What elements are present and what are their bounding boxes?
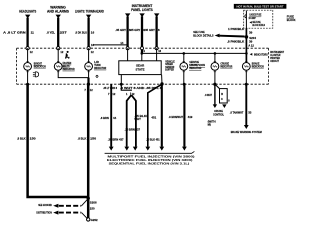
label 1 PNK/BLK 39 bbox=[228, 27, 253, 35]
wire arch branch split bbox=[127, 95, 136, 147]
indicator lamp SERVICE ENGINE SOON bbox=[180, 63, 188, 71]
svg-text:39: 39 bbox=[249, 39, 253, 43]
svg-text:INDICATOR: INDICATOR bbox=[220, 65, 233, 69]
wire below brake lamp bbox=[245, 70, 247, 84]
label BRIGHT INDICATOR bbox=[34, 61, 47, 68]
wire W3 .8 DK BLU bbox=[87, 18, 89, 49]
hop ring W4 at cluster edge bbox=[126, 47, 129, 50]
wire feed to service engine soon lamp bbox=[183, 53, 185, 62]
callout SEE GROUND DISTRIBUTION text bbox=[36, 203, 51, 214]
wire stub from VSS pin dot down and right to arch bbox=[121, 84, 132, 90]
junction dot W1 at bottom edge bbox=[26, 83, 29, 86]
label INSTRUMENT CLUSTER PRINTED CIRCUIT bbox=[270, 50, 284, 63]
svg-text:INDICATOR: INDICATOR bbox=[252, 65, 265, 69]
svg-text:DISTRIBUTION: DISTRIBUTION bbox=[36, 210, 51, 214]
wire feed to cruise lamp bbox=[214, 53, 216, 62]
wire W4 inside cluster to VSS box bbox=[127, 48, 129, 61]
svg-text:BLOCK: BLOCK bbox=[287, 18, 296, 22]
pin 12 labels under edge bbox=[30, 49, 162, 54]
svg-text:INDICATOR: INDICATOR bbox=[34, 65, 47, 69]
svg-text:44: 44 bbox=[113, 116, 117, 120]
svg-text:16: 16 bbox=[91, 31, 95, 35]
label wire W6 value bbox=[144, 28, 160, 32]
junction dot W3 at bottom edge bbox=[87, 83, 90, 86]
wire ground W1 below cluster (thick, L-bend) bbox=[28, 84, 89, 197]
pin ticks below indicator lamps bbox=[26, 71, 247, 73]
svg-text:S206: S206 bbox=[90, 200, 97, 204]
wire below cruise lamp bbox=[214, 70, 216, 84]
splice S206 bbox=[87, 197, 97, 211]
junction dot VSS left pin at bottom edge bbox=[120, 83, 123, 86]
wire W4 .35 GRY 8 bbox=[126, 16, 128, 48]
arrow fuel injection 4 bbox=[145, 147, 150, 151]
label VEHICLE SPEED SENSOR BUFFER bbox=[165, 60, 175, 72]
svg-text:PANEL LIGHTS: PANEL LIGHTS bbox=[131, 8, 153, 12]
label .8 BRN 44 bbox=[100, 116, 116, 120]
splice S204 bbox=[245, 35, 257, 40]
label wire W3 value bbox=[75, 31, 95, 35]
label .35 BLK/WHT 451 bbox=[134, 114, 156, 121]
label FUSE BLOCK bbox=[287, 15, 296, 22]
arrow from panel lights to W5 bbox=[139, 13, 144, 17]
svg-text:.35 BLK 451: .35 BLK 451 bbox=[146, 137, 160, 141]
hop ring W3 at cluster edge bbox=[87, 47, 90, 50]
label wire W4 value bbox=[115, 28, 131, 32]
svg-text:.35 GRY: .35 GRY bbox=[115, 28, 127, 32]
icon fasten seat belt person bbox=[65, 51, 69, 59]
svg-text:CONTROL: CONTROL bbox=[213, 113, 224, 117]
label BRAKE WARNING SYSTEM bbox=[231, 130, 262, 134]
wire VSS box bottom right pin to edge bbox=[161, 75, 163, 84]
callout SEE FUSE BLOCK DETAILS (inside fuse box) bbox=[249, 20, 265, 27]
wire fuse output 1 PNK/BLK 39 bbox=[245, 28, 247, 62]
label .35 BLK 451 (lower) bbox=[146, 137, 160, 141]
svg-text:LIGHTS: TURN/HAZARD: LIGHTS: TURN/HAZARD bbox=[75, 9, 105, 13]
svg-text:419: 419 bbox=[188, 115, 193, 119]
arrow fuel injection 5 bbox=[159, 147, 164, 151]
svg-text:MULTIPORT FUEL INJECTION (VIN: MULTIPORT FUEL INJECTION (VIN 3800) bbox=[108, 155, 195, 159]
label .8 PNK/BLK 39 bbox=[227, 39, 253, 43]
node HEADLIGHTS feed label bbox=[19, 9, 36, 13]
callout SEE FUSE BLOCK DETAILS (left, to splice S204) bbox=[193, 30, 244, 37]
label .8 BLK 150 (W3) bbox=[78, 137, 97, 141]
svg-text:HOT IN RUN, BULB TEST OR START: HOT IN RUN, BULB TEST OR START bbox=[237, 6, 285, 9]
icon turn arrows bbox=[95, 75, 99, 78]
wire W5 .35 GRY 8 bbox=[141, 16, 143, 53]
svg-text:.35 GRY: .35 GRY bbox=[130, 28, 142, 32]
callout arrow 1 to ground distribution bbox=[53, 199, 87, 208]
junction dot SES at bottom edge bbox=[183, 83, 186, 86]
svg-text:.8 BLK: .8 BLK bbox=[17, 137, 27, 141]
arrow fuel injection 6 bbox=[182, 147, 187, 151]
svg-text:.8 PNK/BLK: .8 PNK/BLK bbox=[227, 39, 245, 43]
svg-text:BLOCK DETAILS: BLOCK DETAILS bbox=[193, 33, 213, 37]
svg-text:.8 YEL: .8 YEL bbox=[47, 31, 56, 35]
label wire W5 value bbox=[130, 28, 146, 32]
pin A 12 at cluster connector bbox=[248, 43, 254, 47]
arrow to brake warning system bbox=[244, 125, 249, 129]
svg-text:237: 237 bbox=[60, 31, 67, 35]
arrow from panel lights to W4 bbox=[125, 13, 130, 17]
wire below bright indicator bbox=[27, 70, 29, 84]
instrument cluster dashed box bbox=[17, 48, 269, 84]
indicator lamp FASTEN BELTS bbox=[54, 63, 62, 71]
svg-text:CIRCUIT: CIRCUIT bbox=[270, 59, 279, 63]
svg-text:INDICATOR: INDICATOR bbox=[189, 66, 202, 70]
wire below fasten belts lamp, bends right to W3 bbox=[58, 70, 88, 77]
bracket fuel injection group bbox=[105, 151, 195, 153]
wire below turn lamp to junction bbox=[88, 70, 90, 77]
label .35 BRN 437 (upper) bbox=[125, 128, 141, 132]
svg-text:8: 8 bbox=[158, 28, 160, 32]
arrow from HEADLIGHTS bbox=[25, 15, 30, 19]
svg-text:SEE GROUND: SEE GROUND bbox=[38, 203, 52, 207]
svg-text:WHT: WHT bbox=[134, 117, 141, 121]
svg-text:1 PNK/BLK: 1 PNK/BLK bbox=[228, 27, 245, 31]
wire ground W3 below cluster (thick) bbox=[87, 84, 90, 218]
junction dot H2 feed C4 bbox=[183, 52, 186, 55]
wire VSS box bottom left pin to edge bbox=[120, 75, 122, 85]
label CRUISE INDICATOR bbox=[220, 62, 233, 69]
svg-text:.35 BRN 437: .35 BRN 437 bbox=[125, 128, 141, 132]
wire feed to brake lamp bbox=[245, 53, 247, 62]
svg-text:STATE: STATE bbox=[135, 68, 144, 72]
wire W2 inside cluster bbox=[57, 48, 59, 63]
label BRAKE INDICATOR bbox=[252, 62, 265, 69]
indicator lamp BRAKE bbox=[242, 63, 250, 71]
svg-text:B: B bbox=[221, 93, 223, 96]
node LIGHTS TURN/HAZARD feed label bbox=[75, 9, 105, 13]
svg-text:.35 LT GRN 8: .35 LT GRN 8 bbox=[103, 86, 117, 90]
junction dot H2 at fuse wire bbox=[245, 52, 248, 55]
wire W3 inside cluster bbox=[88, 48, 90, 63]
svg-text:INDICATOR: INDICATOR bbox=[94, 66, 107, 70]
wire below SES lamp bbox=[183, 70, 185, 84]
svg-text:G202: G202 bbox=[91, 218, 98, 222]
wire SES output to fuel injection 6 (thick) bbox=[183, 84, 185, 147]
svg-text:A 12: A 12 bbox=[248, 43, 254, 47]
indicator lamp TURN SIGNAL bbox=[85, 63, 93, 71]
arrow fuel injection 1 bbox=[109, 147, 114, 151]
svg-text:.8 BRN: .8 BRN bbox=[100, 116, 109, 120]
wire W2 .8 YEL 237 bbox=[57, 18, 59, 49]
svg-text:150: 150 bbox=[90, 137, 96, 141]
label .8 TAN/WHT 33 bbox=[230, 111, 252, 115]
wire diagonal from VSS dot to fuel injection 4 bbox=[148, 84, 162, 147]
callout arrow 2 to ground distribution bbox=[53, 211, 87, 219]
wire W6 .35 GRY 8 bbox=[155, 16, 157, 48]
junction dot brake at bottom edge bbox=[245, 83, 248, 86]
fuse block dashed box bbox=[244, 10, 273, 28]
svg-text:.35 GRY: .35 GRY bbox=[144, 28, 156, 32]
arrow fuel injection 2 bbox=[124, 147, 129, 151]
svg-text:.8 BLK: .8 BLK bbox=[78, 137, 88, 141]
indicator lamp BRIGHT INDICATOR bbox=[24, 63, 32, 71]
node INSTRUMENT PANEL LIGHTS feed label bbox=[131, 4, 153, 12]
pin 7 12 under W3 bbox=[84, 88, 93, 92]
wire fuse feed inside fuse box bbox=[245, 11, 247, 29]
svg-text:33: 33 bbox=[248, 111, 252, 115]
svg-text:ELECTRONIC FUEL INJECTION (VIN: ELECTRONIC FUEL INJECTION (VIN 3300) bbox=[107, 158, 193, 162]
svg-text:10 AMP: 10 AMP bbox=[249, 16, 256, 20]
header HOT IN RUN BULB TEST OR START bbox=[234, 4, 287, 9]
note (W/TH M) bbox=[208, 119, 216, 126]
arrow cruise A bbox=[213, 104, 217, 108]
arrow from LIGHTS TURN/HAZARD bbox=[86, 15, 91, 19]
hop ring W5 at cluster edge bbox=[141, 47, 144, 50]
svg-text:SEQUENTIAL FUEL INJECTION (VIN: SEQUENTIAL FUEL INJECTION (VIN 3.1L) bbox=[109, 161, 190, 165]
junction dot VSS right pin at bottom edge bbox=[160, 82, 163, 85]
svg-text:INDICATOR: INDICATOR bbox=[63, 67, 76, 71]
wire cruise lamp output B (branch rectangle) bbox=[215, 84, 220, 88]
callout arrow to other indicators bbox=[250, 52, 268, 56]
wire cruise lamp output A bbox=[214, 84, 216, 104]
svg-text:11: 11 bbox=[31, 31, 35, 35]
label row below cluster wires bbox=[103, 86, 162, 90]
pin 1 12 bbox=[126, 92, 135, 96]
wire W6 inside cluster to VSS box bbox=[156, 48, 158, 61]
svg-text:.8 WHT: .8 WHT bbox=[205, 93, 213, 97]
fuse F GAGES FUSE 10 AMP bbox=[245, 13, 262, 20]
label .35 BRN 437 (lower) bbox=[108, 137, 124, 141]
svg-text:39: 39 bbox=[249, 31, 253, 35]
pin ticks above indicator lamps bbox=[26, 60, 247, 62]
wire brake lamp output (thick) bbox=[245, 84, 247, 125]
svg-text:BUFFER: BUFFER bbox=[165, 68, 174, 72]
arrow from panel lights to W6 bbox=[154, 13, 159, 17]
label .8 BRN/WHT 419 bbox=[169, 115, 193, 119]
label wire W1 value bbox=[3, 31, 34, 35]
label CRUISE CONTROL bbox=[213, 109, 224, 116]
junction dot H2 feed C5 bbox=[214, 52, 217, 55]
junction dot H2/W5 bbox=[141, 52, 144, 55]
junction dot cruise at bottom edge bbox=[213, 83, 216, 86]
wire ground junction to cluster edge (thick) bbox=[87, 78, 89, 85]
label SERVICE ENGINE SOON INDICATOR bbox=[189, 60, 205, 70]
arrow fuel injection 3 bbox=[133, 147, 138, 151]
svg-text:A .8 LT GRN: A .8 LT GRN bbox=[3, 31, 26, 35]
svg-text:INDICATORS: INDICATORS bbox=[254, 52, 268, 56]
pin 7 12 under wire bbox=[108, 92, 116, 96]
label FASTEN BELTS INDICATOR bbox=[63, 61, 76, 71]
wire H1 link to W4 bbox=[91, 41, 128, 47]
svg-text:150: 150 bbox=[90, 207, 95, 211]
svg-text:AND ALARMS: AND ALARMS bbox=[47, 9, 69, 13]
hop ring W6 at cluster edge bbox=[155, 47, 158, 50]
box U1 vehicle speed sensor buffer bbox=[119, 61, 161, 75]
svg-text:M): M) bbox=[208, 122, 211, 126]
label TURN INDICATOR bbox=[94, 60, 107, 70]
svg-text:150: 150 bbox=[30, 137, 36, 141]
svg-text:451: 451 bbox=[151, 116, 156, 120]
label fuel injection systems bbox=[107, 155, 195, 166]
arrow cruise B bbox=[222, 104, 226, 108]
wire W1 inside cluster bbox=[27, 48, 29, 63]
svg-text:HEADLIGHTS: HEADLIGHTS bbox=[19, 9, 36, 13]
hop ring W1 at cluster edge bbox=[26, 47, 29, 50]
label .8 BLK 150 (W1) bbox=[17, 137, 36, 141]
svg-text:BLOCK DETAILS: BLOCK DETAILS bbox=[252, 23, 265, 27]
hop ring W2 at cluster edge bbox=[57, 47, 60, 50]
svg-text:.8 TAN/WHT: .8 TAN/WHT bbox=[230, 111, 244, 115]
svg-text:.8 BRN/WHT: .8 BRN/WHT bbox=[169, 115, 184, 119]
wire W1 .8 LT GRN 11 (vertical, headlights to cluster) bbox=[26, 18, 28, 49]
icon high beam bbox=[33, 72, 39, 77]
svg-text:.8 DK BLU: .8 DK BLU bbox=[75, 31, 88, 35]
wire H2 ignition feed rail inside cluster bbox=[142, 53, 247, 60]
label .8 WHT bbox=[205, 93, 213, 97]
svg-text:BRAKE WARNING SYSTEM: BRAKE WARNING SYSTEM bbox=[231, 130, 262, 134]
wire VSS ground to fuel injection 5 (thick) bbox=[161, 84, 163, 147]
arrow from WARNING AND ALARMS bbox=[56, 15, 61, 19]
label wire W2 value bbox=[47, 31, 67, 35]
svg-text:.35 BRN 437: .35 BRN 437 bbox=[108, 137, 124, 141]
node WARNING AND ALARMS feed label bbox=[47, 6, 69, 14]
indicator lamp CRUISE bbox=[211, 63, 219, 71]
wire to fuel injection 1 bbox=[110, 84, 112, 147]
ground G202 bbox=[87, 218, 99, 223]
